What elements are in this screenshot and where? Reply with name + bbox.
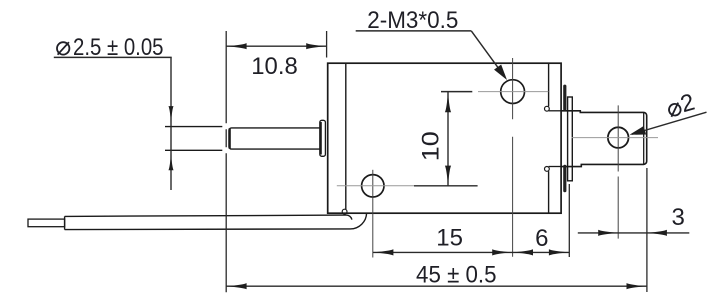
dimension 10 bottom reference line xyxy=(414,185,478,187)
dimension 10 bottom arrow xyxy=(445,166,451,186)
slot edge line upper xyxy=(549,110,562,112)
leader D2.5 up arrow xyxy=(168,154,173,170)
leader D2.5 underline xyxy=(54,56,172,58)
upper hole vertical centerline / extension xyxy=(512,58,514,257)
dimension 10 top reference line xyxy=(441,91,472,93)
dimension 15-6 line xyxy=(373,251,569,253)
hole D2 horizontal centerline xyxy=(572,137,659,139)
wire cable top edge with inner bend arc xyxy=(65,215,352,220)
label D2.5 diameter symbol (drawn) xyxy=(57,42,69,55)
dimension 15 left arrow xyxy=(373,249,393,255)
dimension 10 line xyxy=(447,92,449,186)
lower hole horizontal centerline xyxy=(337,185,414,187)
dimension 6 left arrow xyxy=(513,249,533,255)
shaft washer/flange xyxy=(320,120,326,156)
leader 2-M3*0.5 diagonal xyxy=(471,31,502,73)
leader D2.5 down arrow xyxy=(168,106,173,122)
hole D2 vertical centerline / extension xyxy=(617,105,619,238)
svg-text:6: 6 xyxy=(535,225,548,252)
dimension 10.8 extension line right xyxy=(326,31,328,58)
upper hole horizontal centerline xyxy=(478,91,548,93)
svg-text:10.8: 10.8 xyxy=(251,53,298,80)
svg-text:45 ± 0.5: 45 ± 0.5 xyxy=(416,261,497,288)
svg-text:3: 3 xyxy=(672,204,685,231)
lower M3 hole xyxy=(362,175,384,197)
dimension 10 top arrow xyxy=(445,92,451,112)
body right flange lower hook xyxy=(545,167,550,172)
upper tab (dark) xyxy=(563,85,566,111)
dimension 6 right extension line xyxy=(568,184,570,257)
leader D2 line xyxy=(632,112,707,134)
wire cable left cap xyxy=(64,216,66,229)
rear block outline xyxy=(562,111,647,167)
plunger shaft thick section dark left edge xyxy=(228,129,230,149)
upper M3 hole xyxy=(501,80,525,104)
body right flange upper hook xyxy=(545,106,550,111)
leader D2 arrowhead xyxy=(628,126,646,139)
svg-text:2-M3*0.5: 2-M3*0.5 xyxy=(367,7,458,34)
body left flange inner line xyxy=(345,64,347,210)
lower hole vertical centerline / extension xyxy=(372,170,374,258)
dimension 10.8 extension line left xyxy=(225,31,227,292)
dimension 10.8 left arrow xyxy=(227,43,247,49)
dimension 6 right arrow xyxy=(549,249,569,255)
washer dark left edge xyxy=(320,122,322,155)
solenoid body outline xyxy=(328,63,561,213)
dimension 3 right arrow (outside, pointing left) xyxy=(647,230,667,236)
svg-text:10: 10 xyxy=(417,131,444,161)
dimension 45 left arrow xyxy=(227,283,247,289)
body left flange hook xyxy=(342,209,347,214)
rear block end cap inner line xyxy=(643,113,645,164)
plunger shaft thin section bottom line xyxy=(165,149,222,151)
dimension 45 right arrow xyxy=(627,283,647,289)
plunger shaft thick section xyxy=(229,128,321,149)
leader 2-M3*0.5 arrowhead xyxy=(494,64,511,82)
dimension 45 right extension line xyxy=(646,168,648,292)
svg-text:15: 15 xyxy=(436,224,463,251)
dimension 3 left arrow (outside, pointing right) xyxy=(598,230,618,236)
slot edge line lower xyxy=(549,166,562,168)
dimension 10.8 line xyxy=(226,45,326,47)
dimension 15 right arrow xyxy=(492,249,512,255)
body right flange inner line lower segment xyxy=(548,171,550,213)
rear bracket plate xyxy=(568,97,573,181)
wire lead tip (stripped end) xyxy=(28,219,65,227)
svg-text:2.5 ± 0.05: 2.5 ± 0.05 xyxy=(73,34,164,61)
dimension 45 line xyxy=(226,285,647,287)
leader 2-M3*0.5 underline xyxy=(356,30,472,32)
leader D2.5 vertical line xyxy=(170,57,172,190)
body right flange inner line upper segment xyxy=(548,64,550,107)
hole D2 in rear block xyxy=(608,127,629,148)
wire cable bottom edge with outer bend arc xyxy=(65,213,367,230)
dimension 10.8 right arrow xyxy=(306,43,326,49)
dimension 3 line xyxy=(578,232,690,234)
label D2 diameter symbol (drawn, rotated) xyxy=(668,102,682,117)
plunger shaft thin section top line xyxy=(165,126,222,128)
lower tab (dark) xyxy=(563,165,566,192)
